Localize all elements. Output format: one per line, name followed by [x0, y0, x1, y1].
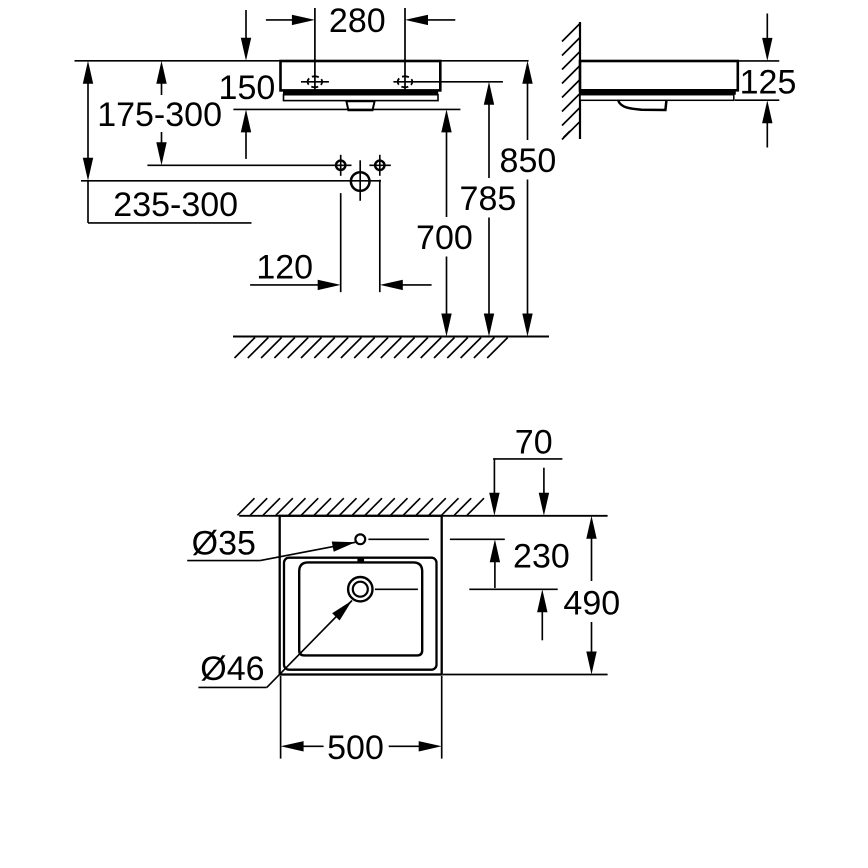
dimension 500 [281, 729, 442, 767]
basin side outline [580, 61, 738, 90]
dimension 785 [460, 82, 517, 337]
svg-text:850: 850 [500, 142, 557, 180]
wire: faucet holes line left [147, 164, 351, 166]
basin outer rect plan [280, 516, 442, 675]
wire: reference line 125 bottom [735, 99, 780, 101]
wire: drain reference line plan [375, 588, 558, 590]
svg-text:490: 490 [563, 585, 620, 623]
basin front outline [281, 61, 441, 90]
svg-text:Ø35: Ø35 [192, 525, 256, 563]
wire: mounting hole reference line to 785 [393, 81, 503, 83]
spout hole circle front [351, 160, 370, 201]
bowl outline plan [299, 562, 422, 655]
ground hatching [235, 338, 508, 359]
svg-text:230: 230 [513, 537, 570, 575]
svg-text:500: 500 [327, 729, 384, 767]
svg-text:175-300: 175-300 [97, 96, 222, 134]
faucet hole small right [375, 155, 384, 176]
svg-text:70: 70 [515, 423, 553, 461]
wire: extension line 280 left [314, 8, 316, 95]
wire: faucet holes line right [369, 164, 390, 166]
wire: basin bottom reference line (150/700) [233, 108, 460, 110]
wire: ground line [233, 336, 549, 338]
basin front black band [283, 90, 438, 94]
wire: extension line 500 left [280, 676, 282, 759]
dimension 175-300 [97, 61, 222, 166]
wire: bottom reference line 490 [443, 674, 608, 676]
label diameter 46 with leader [198, 601, 352, 689]
wire: faucet hole reference line [368, 538, 504, 540]
dimension 150 [219, 10, 276, 159]
svg-text:125: 125 [740, 63, 797, 101]
dimension 120 [250, 248, 432, 290]
dimension 490 [563, 516, 620, 675]
svg-text:150: 150 [219, 69, 276, 107]
basin front lower strip [284, 95, 439, 101]
svg-text:785: 785 [460, 180, 517, 218]
dimension 280 [266, 2, 455, 40]
drain circle inner plan [353, 582, 368, 597]
dimension 125 [740, 14, 797, 148]
wire: spout height reference line [81, 180, 381, 182]
svg-text:120: 120 [256, 248, 313, 286]
dimension 230 [490, 537, 570, 640]
wall line side view [579, 22, 581, 139]
dimension 850 [500, 61, 557, 337]
wire: extension line 280 right [404, 8, 406, 95]
wire: rim line side [580, 60, 779, 62]
wall hatching plan view [238, 498, 485, 515]
wall hatching side view [562, 24, 580, 140]
basin side lower strip [580, 95, 734, 101]
mounting hole left (dashed ellipse + cross) [301, 76, 329, 87]
faucet hole small left [336, 155, 345, 176]
label diameter 35 with leader [187, 525, 355, 563]
overflow mark [357, 557, 364, 562]
wire: extension line 120 left [340, 193, 342, 292]
faucet hole plan [355, 534, 365, 544]
dimension 700 [416, 109, 473, 336]
mounting hole right (dashed ellipse) [398, 76, 413, 87]
svg-text:235-300: 235-300 [113, 186, 238, 224]
svg-text:700: 700 [416, 219, 473, 257]
wall line plan view [239, 515, 607, 517]
wire: rim top reference line [75, 60, 529, 62]
siphon outline side [618, 101, 666, 110]
drain circle outer plan [348, 577, 372, 601]
dimension 70 [489, 423, 562, 515]
svg-text:280: 280 [329, 2, 386, 40]
drain trapezoid front [346, 101, 374, 110]
wire: extension line 500 right [441, 676, 443, 759]
dimension 235-300 [83, 61, 252, 224]
basin rim inner outline plan [284, 558, 437, 670]
basin side black band [580, 90, 736, 95]
svg-text:Ø46: Ø46 [200, 650, 264, 688]
wire: extension line 120 right [379, 180, 381, 292]
